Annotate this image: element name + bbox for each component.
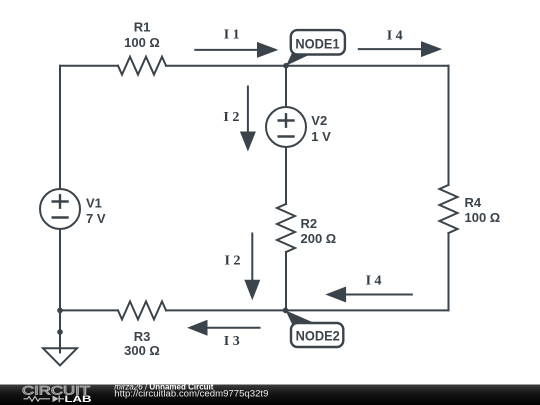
svg-text:I 1: I 1: [224, 27, 240, 42]
svg-text:NODE2: NODE2: [296, 328, 340, 344]
resistor R1: [118, 57, 166, 75]
node NODE2 callout tail: [286, 310, 314, 324]
current arrow I1: [194, 42, 278, 58]
svg-text:R1: R1: [134, 19, 151, 34]
svg-text:NODE1: NODE1: [295, 35, 339, 51]
wire right vertical lower: [448, 233, 450, 310]
wire left vertical upper: [59, 66, 61, 189]
resistor R2: [277, 204, 295, 252]
label R1: [124, 19, 160, 50]
junction node NODE2 dot: [283, 308, 289, 314]
node NODE2 callout box: [291, 323, 343, 347]
wire right vertical upper: [448, 66, 450, 185]
node NODE1 callout box: [291, 30, 345, 54]
ground: [43, 348, 77, 365]
svg-text:1 V: 1 V: [311, 129, 331, 144]
svg-text:R4: R4: [465, 195, 482, 210]
wire NODE2 to bottom-right corner: [286, 309, 449, 311]
svg-text:I 3: I 3: [224, 334, 240, 349]
current arrow I2 top: [240, 86, 256, 152]
wire R3 to NODE2: [166, 309, 286, 311]
label R3: [124, 329, 160, 358]
footer logo wire-diode symbol: [24, 396, 65, 401]
current arrow I4 top: [358, 41, 442, 57]
wire middle vertical upper: [285, 66, 287, 107]
current arrow I4 bottom: [325, 287, 413, 303]
V1 plus sign: [53, 195, 68, 207]
wire V2 to R2: [285, 147, 287, 204]
current arrow I3: [187, 320, 260, 336]
V2 plus sign: [279, 114, 294, 126]
wire bottom-left segment: [60, 309, 118, 311]
voltage source V2: [266, 107, 306, 147]
svg-text:V2: V2: [311, 113, 327, 128]
svg-text:I 4: I 4: [366, 274, 382, 289]
svg-text:I 2: I 2: [223, 110, 239, 125]
svg-text:200 Ω: 200 Ω: [301, 231, 337, 246]
svg-text:V1: V1: [86, 195, 102, 210]
label V1: [86, 195, 106, 226]
svg-text:I 2: I 2: [225, 254, 241, 269]
junction dot above ground: [57, 329, 63, 335]
resistor R3: [118, 301, 166, 319]
node NODE1 callout tail: [286, 53, 313, 66]
resistor R4: [440, 185, 458, 233]
svg-text:I 4: I 4: [387, 28, 403, 43]
wire top-left segment: [60, 65, 118, 67]
current arrow I2 bottom: [244, 233, 260, 301]
svg-text:R2: R2: [301, 216, 318, 231]
V1 minus sign: [53, 216, 68, 218]
wire left vertical lower: [59, 229, 61, 353]
wire R1 to NODE1: [166, 65, 286, 67]
junction node NODE1 dot: [283, 63, 289, 69]
voltage source V1: [40, 189, 80, 229]
svg-text:http://circuitlab.com/cedm9775: http://circuitlab.com/cedm9775q32t9: [114, 389, 268, 400]
junction dot ground branch: [57, 308, 63, 314]
svg-text:100 Ω: 100 Ω: [124, 35, 160, 50]
svg-text:LAB: LAB: [65, 394, 92, 405]
label V2: [311, 113, 331, 144]
svg-text:300 Ω: 300 Ω: [124, 343, 160, 358]
svg-text:7 V: 7 V: [86, 211, 106, 226]
footer bar: [0, 385, 540, 405]
wire NODE1 to top-right corner: [286, 65, 449, 67]
wire R2 to NODE2: [285, 252, 287, 310]
label R2: [301, 216, 337, 246]
footer logo diode: [53, 396, 59, 403]
V2 minus sign: [279, 135, 294, 137]
label R4: [465, 195, 501, 225]
svg-text:R3: R3: [134, 329, 151, 344]
svg-text:100 Ω: 100 Ω: [465, 210, 501, 225]
